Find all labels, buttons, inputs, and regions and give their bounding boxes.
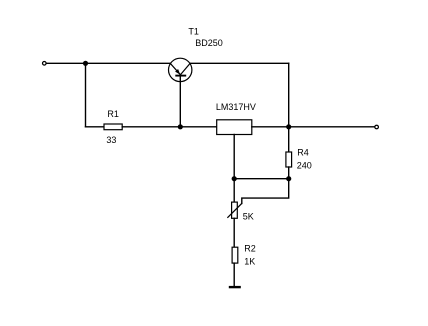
svg-text:BD250: BD250: [195, 38, 223, 48]
wire left vertical: [85, 63, 87, 127]
node base junction: [178, 124, 183, 129]
wire adj horizontal: [234, 178, 289, 180]
resistor R1: [104, 124, 122, 130]
wire LM317 adj pin down: [233, 135, 235, 179]
potentiometer P1 5K: [232, 202, 238, 218]
wire to R1 left: [86, 126, 105, 128]
resistor R2: [232, 247, 238, 263]
svg-text:33: 33: [106, 135, 116, 145]
svg-text:1K: 1K: [244, 256, 255, 266]
op-amp U1 LM317HV regulator: [217, 120, 252, 135]
wire R1 to LM317 input: [122, 126, 217, 128]
wire junction to transistor emitter: [86, 62, 171, 64]
svg-text:240: 240: [297, 160, 312, 170]
wire adj junction to pot top: [233, 179, 235, 202]
output terminal: [375, 125, 379, 129]
wire right vertical down: [288, 63, 290, 127]
wire R4 to adj junction: [288, 167, 290, 179]
input terminal: [43, 62, 47, 66]
node output junction: [286, 124, 291, 129]
resistor R4: [286, 152, 292, 167]
node adj junction: [232, 176, 237, 181]
svg-text:T1: T1: [188, 27, 199, 37]
wire output junction to R4: [288, 127, 290, 152]
svg-text:5K: 5K: [243, 212, 254, 222]
node input junction: [83, 61, 88, 66]
transistor Q1 T1 BD250: [169, 58, 192, 81]
svg-text:LM317HV: LM317HV: [216, 102, 256, 112]
node R4 bottom junction: [286, 176, 291, 181]
svg-text:R2: R2: [244, 244, 256, 254]
wire R2 to ground: [233, 263, 235, 286]
svg-text:R1: R1: [107, 109, 119, 119]
ground: [229, 286, 241, 288]
wire base lead: [179, 76, 181, 127]
wire LM317 output to output terminal: [252, 126, 374, 128]
wire wiper: down, left, down to pot arrow: [242, 179, 289, 204]
wire pot bottom to R2: [233, 218, 235, 247]
svg-text:R4: R4: [297, 148, 309, 158]
wire collector to right: [190, 62, 289, 64]
wire input to junction: [47, 62, 86, 64]
